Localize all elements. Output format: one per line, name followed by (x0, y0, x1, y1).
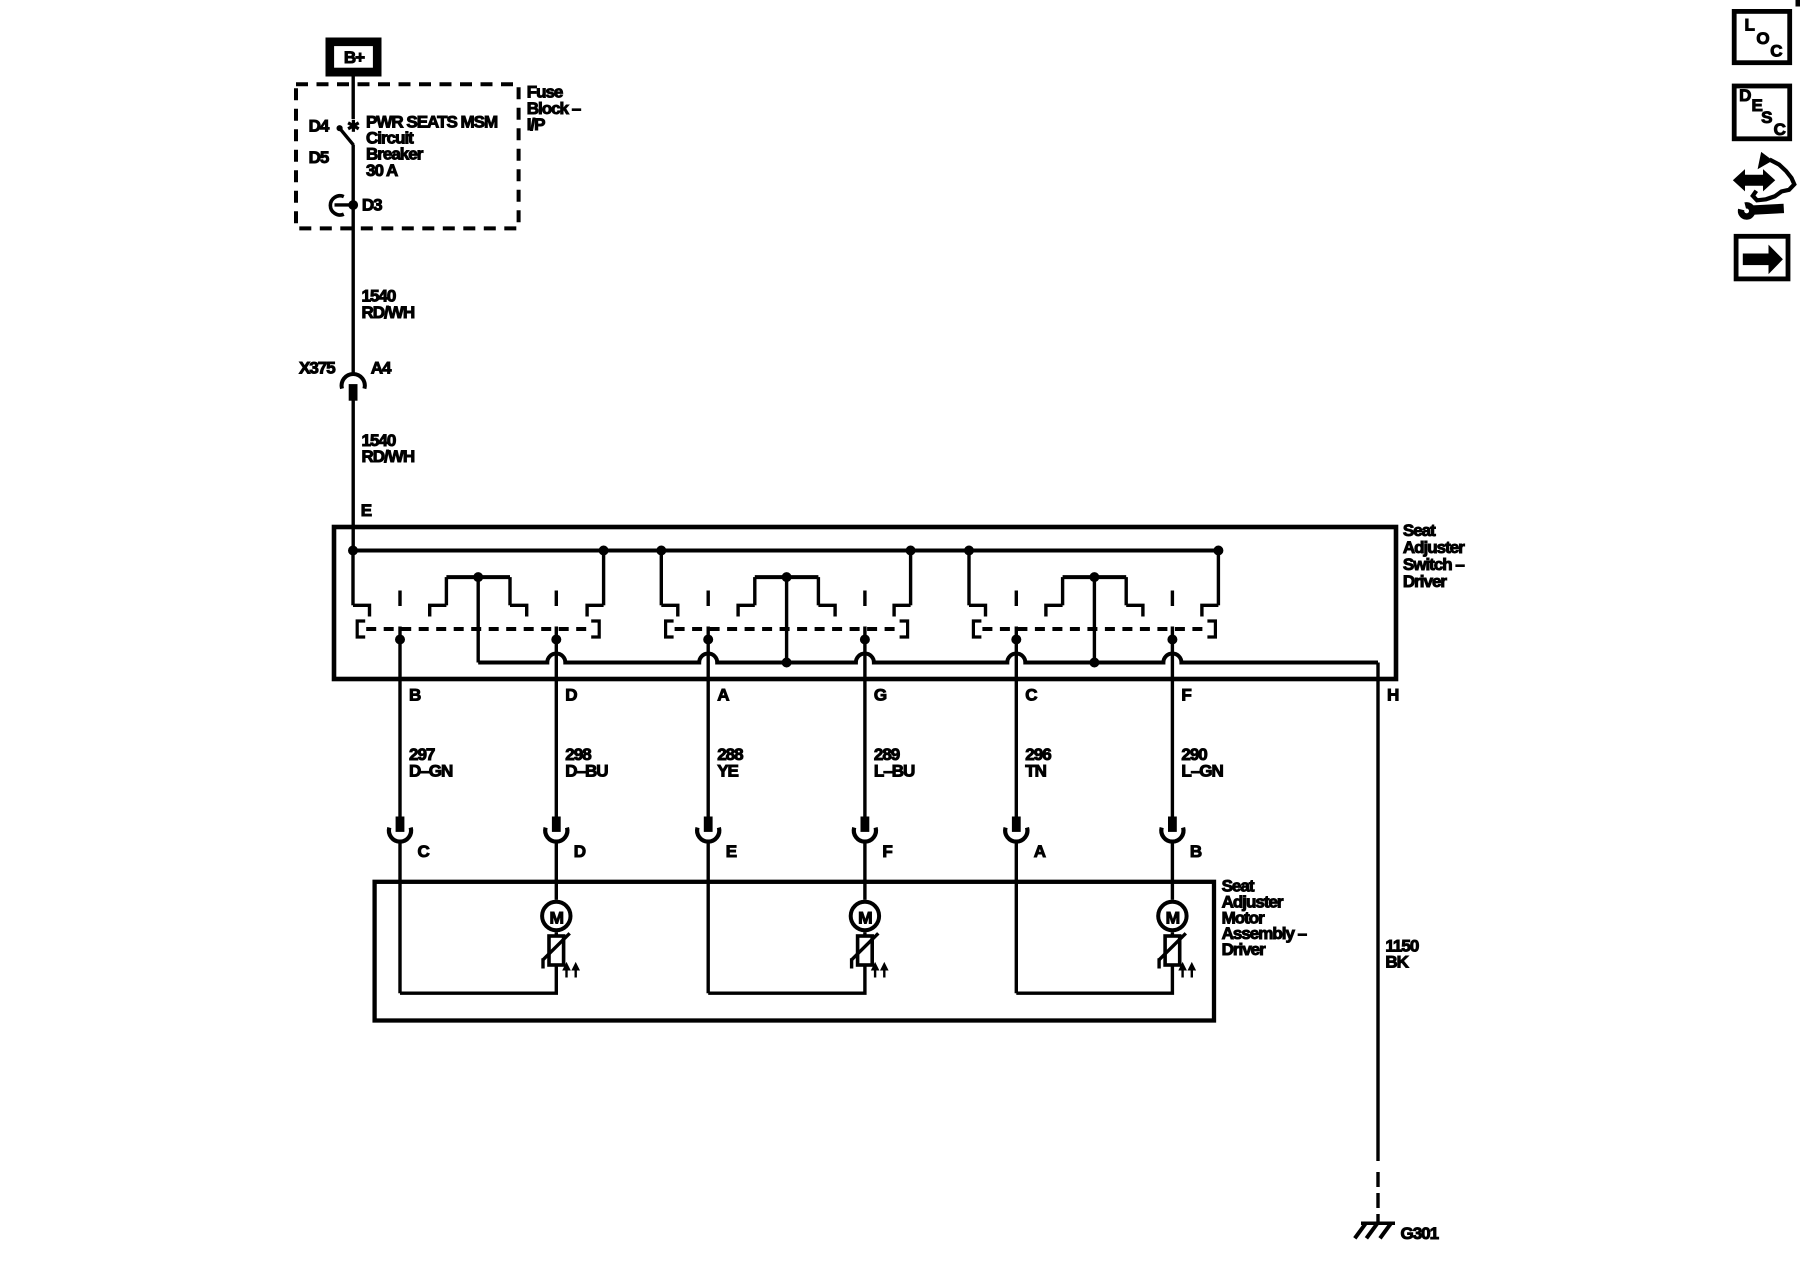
svg-text:C: C (1770, 42, 1782, 61)
svg-text:C: C (1025, 685, 1037, 704)
switch group 1 bus junction left (349, 546, 358, 555)
switch group 1 output wiper to common (477, 577, 480, 662)
switch group 3 output wiper to common (1093, 577, 1096, 662)
svg-text:M: M (550, 908, 564, 927)
wire breaker to D3 (352, 145, 355, 231)
switch group 2 bus junction left (657, 546, 666, 555)
svg-text:D: D (1739, 86, 1751, 105)
svg-text:A: A (717, 685, 729, 704)
motor 1 supply wire (555, 843, 558, 900)
switch group 1 rocker common contact (430, 573, 527, 617)
switch group 1 left fixed contact (353, 551, 370, 617)
icon LOC button (1734, 11, 1790, 62)
motor 2 thermal protector (852, 932, 879, 968)
svg-text:O: O (1756, 29, 1769, 48)
breaker reset hook and node D3 (330, 196, 357, 215)
switch group 3 movable contact stub x=1172.4 (1171, 591, 1174, 607)
switch group 2 right fixed contact (894, 551, 911, 617)
connector terminal B (1161, 817, 1202, 861)
motor 3 self-reset arrows (1179, 963, 1195, 978)
svg-text:D4: D4 (309, 117, 330, 136)
svg-text:H: H (1387, 685, 1399, 704)
svg-text:G301: G301 (1401, 1224, 1439, 1243)
switch group 1 movable contact stub x=400.0 (398, 591, 401, 607)
switch group 3 right fixed contact (1202, 551, 1219, 617)
motor 3 motor M (1158, 902, 1186, 930)
motor 1 self-reset arrows (563, 963, 579, 978)
seat adjuster motor assembly box (375, 882, 1214, 1021)
svg-text:B+: B+ (344, 48, 365, 67)
motor 2 self-reset arrows (872, 963, 888, 978)
icon DESC button (1734, 86, 1790, 139)
motor 3 supply wire (1171, 843, 1174, 900)
switch group 3 wiper line and junction x=1172.4 (1168, 627, 1177, 818)
svg-text:C: C (1774, 120, 1786, 139)
switch group 1 mechanical link dashed (357, 621, 599, 637)
connector terminal A (1005, 817, 1046, 861)
seat adjuster switch box (334, 527, 1396, 679)
svg-text:F: F (1181, 685, 1191, 704)
switch group 3 left fixed contact (969, 551, 986, 617)
output bus to pin H with hops (478, 654, 1378, 663)
svg-text:M: M (858, 908, 872, 927)
switch group 2 mechanical link dashed (666, 621, 908, 637)
svg-text:D: D (574, 842, 586, 861)
svg-text:M: M (1166, 908, 1180, 927)
switch group 1 movable contact stub x=556.3 (555, 591, 558, 607)
svg-text:E: E (726, 842, 737, 861)
switch group 3 wiper line and junction x=1016.3 (1012, 627, 1021, 818)
wire fuse block to X375 (352, 230, 355, 373)
fuse block dashed box (296, 84, 519, 228)
switch group 3 bus junction left (965, 546, 974, 555)
svg-text:G: G (874, 685, 887, 704)
wire B+ to circuit breaker (352, 76, 355, 119)
motor 2 supply wire (863, 843, 866, 900)
connector terminal D (545, 817, 586, 861)
connector terminal C (389, 817, 430, 861)
motor 3 return wire (1015, 843, 1018, 993)
switch group 3 mechanical link dashed (973, 621, 1215, 637)
switch group 2 bus junction right (906, 546, 915, 555)
motor 3 thermal protector (1159, 932, 1186, 968)
motor 2 bottom loop wire (708, 965, 865, 993)
output bus junction group3 (1090, 658, 1099, 667)
connector terminal E (697, 817, 737, 861)
switch group 1 wiper line and junction x=556.3 (552, 627, 561, 818)
switch group 1 right fixed contact (587, 551, 604, 617)
svg-text:B: B (409, 685, 421, 704)
svg-text:E: E (361, 501, 372, 520)
connector terminal F (854, 817, 893, 861)
motor 3 bottom loop wire (1016, 965, 1172, 993)
internal feed bus (353, 549, 1218, 553)
svg-text:A: A (1034, 842, 1046, 861)
switch group 3 movable contact stub x=1016.3 (1015, 591, 1018, 607)
svg-text:A4: A4 (371, 359, 392, 378)
svg-text:F: F (882, 842, 892, 861)
switch group 2 movable contact stub x=864.9 (863, 591, 866, 607)
motor 1 bottom loop wire (400, 965, 556, 993)
svg-text:S: S (1761, 108, 1772, 127)
motor 2 return wire (707, 843, 710, 993)
icon quick-repair (arrows and wrench) (1734, 153, 1795, 217)
svg-text:C: C (418, 842, 430, 861)
svg-text:D5: D5 (309, 148, 329, 167)
switch group 2 movable contact stub x=708.2 (707, 591, 710, 607)
switch group 2 output wiper to common (785, 577, 788, 662)
motor 1 return wire (398, 843, 401, 993)
wire X375 to switch pin E (352, 400, 355, 550)
ground symbol G301 (1355, 1223, 1395, 1239)
output bus junction group2 (782, 658, 791, 667)
connector X375 pin A4 (299, 359, 392, 401)
switch group 3 bus junction right (1214, 546, 1223, 555)
svg-text:L: L (1745, 16, 1755, 35)
switch group 1 bus junction right (599, 546, 608, 555)
battery feed symbol B+ (326, 38, 381, 76)
switch group 1 wiper line and junction x=400.0 (396, 627, 405, 818)
svg-text:D3: D3 (362, 196, 382, 215)
svg-text:D: D (565, 685, 577, 704)
switch group 2 rocker common contact (738, 573, 835, 617)
wire pin H to ground solid (1376, 663, 1379, 1162)
switch group 2 wiper line and junction x=864.9 (860, 627, 869, 818)
svg-text:B: B (1190, 842, 1202, 861)
motor 1 motor M (542, 902, 570, 930)
motor 2 motor M (851, 902, 879, 930)
svg-text:X375: X375 (299, 359, 335, 378)
circuit breaker PWR SEATS MSM 30A (337, 120, 359, 145)
switch group 3 rocker common contact (1046, 573, 1143, 617)
wire dashed segment to ground (1376, 1172, 1379, 1222)
icon forward arrow button (1736, 236, 1788, 279)
switch group 2 left fixed contact (661, 551, 678, 617)
motor 1 thermal protector (543, 932, 570, 968)
switch group 2 wiper line and junction x=708.2 (704, 627, 713, 818)
page corner mark (1796, 0, 1800, 6)
